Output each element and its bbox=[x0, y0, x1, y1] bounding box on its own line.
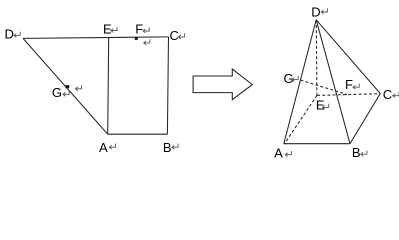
svg-text:B: B bbox=[163, 140, 172, 155]
svg-text:D: D bbox=[5, 27, 14, 42]
svg-text:C: C bbox=[383, 87, 392, 102]
svg-text:F: F bbox=[135, 21, 143, 36]
svg-text:C: C bbox=[170, 28, 179, 43]
svg-text:D: D bbox=[311, 5, 320, 20]
svg-text:E: E bbox=[103, 21, 112, 36]
svg-text:E: E bbox=[316, 98, 325, 113]
svg-text:G: G bbox=[52, 85, 62, 100]
svg-text:F: F bbox=[345, 77, 353, 92]
svg-text:B: B bbox=[352, 145, 361, 160]
svg-text:A: A bbox=[99, 140, 108, 155]
svg-text:G: G bbox=[284, 71, 294, 86]
svg-text:A: A bbox=[274, 145, 283, 160]
